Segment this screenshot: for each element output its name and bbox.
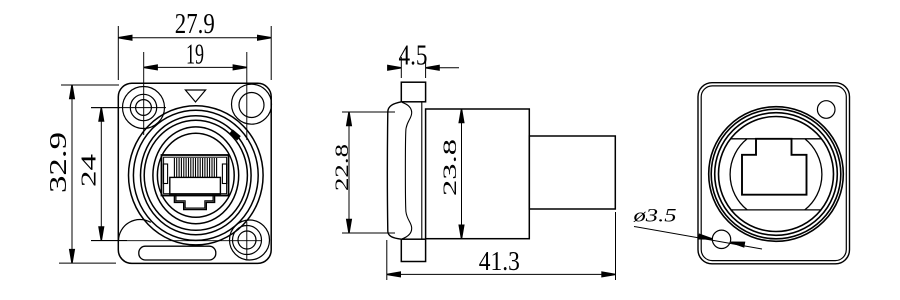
svg-text:ø3.5: ø3.5	[632, 206, 676, 227]
centerline vertical top-left	[143, 52, 145, 135]
dimension 32.9	[59, 85, 119, 263]
svg-text:22.8: 22.8	[333, 144, 353, 191]
plug tab notch inner	[170, 194, 221, 208]
svg-text:19: 19	[186, 39, 204, 70]
flange slab rear face line	[421, 102, 423, 239]
svg-text:41.3: 41.3	[479, 246, 520, 276]
diameter leader line	[634, 227, 762, 250]
plug tab notch outer	[162, 196, 229, 210]
rear rings	[709, 107, 844, 242]
dimension 24	[91, 108, 127, 241]
latch window right	[222, 164, 226, 184]
centerline horizontal top-left	[91, 107, 166, 109]
locking ring circles	[129, 106, 264, 245]
plug cavity	[170, 177, 221, 194]
ring notch mark	[229, 129, 241, 140]
inner rounded rect	[701, 86, 846, 261]
boss arc bottom-left	[119, 219, 151, 241]
centerline vertical top-right	[246, 52, 248, 140]
boss arc bottom-right	[230, 220, 270, 260]
orientation triangle	[185, 90, 205, 102]
holder side arcs	[730, 139, 822, 210]
flange tab top	[401, 82, 425, 102]
svg-text:32.9: 32.9	[45, 132, 72, 193]
body box	[426, 109, 530, 239]
dimension 19	[144, 66, 247, 68]
bottom slot	[139, 246, 216, 260]
rj45 inner rect	[164, 157, 227, 194]
dimension 27.9	[118, 26, 271, 80]
bezel profile inner	[402, 102, 412, 239]
hole top-left	[136, 100, 152, 116]
dimension 4.5	[388, 57, 459, 78]
dimension 23.8	[461, 109, 463, 239]
dimension 41.3	[387, 212, 616, 280]
flange tab bottom	[401, 239, 425, 261]
rear box	[529, 136, 615, 209]
svg-text:4.5: 4.5	[399, 39, 428, 71]
small hole top-right	[817, 101, 835, 119]
boss arc top-left	[123, 87, 165, 129]
counterbore bottom-right	[233, 226, 262, 255]
svg-text:24: 24	[77, 154, 101, 187]
latch window left	[163, 164, 167, 184]
counterbore top-left	[130, 94, 156, 120]
centerline vertical bottom-right	[246, 222, 248, 259]
rear jack opening	[742, 139, 807, 195]
bezel profile outer	[387, 102, 401, 239]
hole bottom-right	[238, 231, 256, 249]
outer rounded rect	[698, 83, 850, 264]
contact pins hatch	[174, 158, 216, 177]
centerline horizontal bottom	[91, 240, 262, 242]
svg-text:27.9: 27.9	[175, 9, 215, 40]
boss arc top-right	[232, 84, 272, 124]
flange outline	[118, 83, 271, 263]
svg-text:23.8: 23.8	[440, 139, 461, 196]
holder flats chords	[731, 139, 822, 210]
hole top-right	[239, 93, 264, 118]
dimension 22.8	[342, 112, 395, 233]
rj45 jack outer rect	[162, 155, 229, 196]
small hole bottom-left	[712, 230, 730, 248]
